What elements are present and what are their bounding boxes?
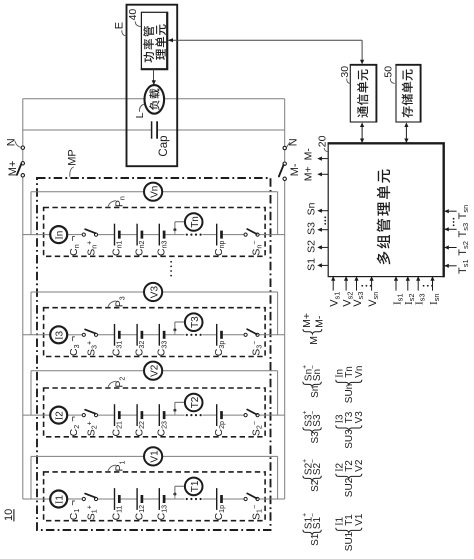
svg-text:M+: M+ — [7, 161, 19, 177]
battery cell Cn1 — [114, 224, 116, 246]
arrow M- control output — [322, 158, 329, 160]
svg-text:30: 30 — [339, 66, 351, 78]
svg-text:S1: S1 — [310, 533, 321, 546]
switch S2+ contacts and blade — [82, 414, 85, 417]
switch Sn- contacts and blade — [244, 233, 247, 236]
svg-text:I1: I1 — [55, 495, 66, 504]
switch M+ contacts — [21, 162, 24, 165]
battery cell C32 — [136, 324, 138, 346]
battery cell C21 — [114, 404, 116, 426]
svg-text:V2: V2 — [354, 459, 365, 472]
ellipsis dots in pack Pn — [186, 234, 188, 236]
arrow S3 control output — [322, 229, 329, 231]
svg-text:T1: T1 — [344, 514, 355, 526]
battery cell C12 — [136, 488, 138, 510]
svg-text:S2: S2 — [310, 479, 321, 492]
storage unit box 50 (cun chu dan yuan) — [396, 65, 421, 122]
current sensor I1 circle — [50, 491, 67, 508]
double arrow box30 to box20 — [361, 126, 363, 140]
svg-text:T3: T3 — [344, 411, 355, 423]
svg-text:I2: I2 — [55, 411, 66, 420]
svg-text:V3: V3 — [149, 286, 160, 299]
voltage sensor V2 circle — [144, 362, 162, 380]
battery cell C2p — [216, 404, 218, 426]
current sensor In circle — [50, 226, 67, 243]
switch M+ blade — [17, 164, 21, 175]
dots between Ts3 and Tsn — [453, 218, 455, 220]
wire pack P3 main string — [23, 334, 50, 336]
svg-text:S3: S3 — [310, 431, 321, 444]
svg-text:SU3: SU3 — [344, 429, 355, 449]
voltage sensor V1 circle — [144, 447, 162, 465]
voltage sense line V2 — [31, 370, 144, 372]
svg-text:In: In — [55, 231, 66, 240]
svg-text:S1: S1 — [306, 258, 318, 271]
voltage sensor Vn circle — [144, 183, 162, 201]
svg-text:Vn: Vn — [149, 186, 160, 198]
voltage inputs Vs1 Vs2 Vs3 Vsn — [332, 277, 334, 291]
svg-text:Tn: Tn — [190, 216, 201, 228]
svg-text:SUn: SUn — [344, 384, 355, 403]
svg-text:V1: V1 — [354, 513, 365, 526]
svg-text:M+: M+ — [303, 166, 315, 181]
svg-text:S2: S2 — [306, 240, 318, 253]
dots between Vs3 and Vsn — [361, 285, 363, 287]
temperature sensor T3 circle and tap — [173, 328, 176, 331]
dots between Is3 and Isn — [423, 285, 425, 287]
svg-text:Sn: Sn — [306, 202, 318, 215]
switch S1+ contacts and blade — [82, 497, 85, 500]
arrow S1 control output — [322, 264, 329, 266]
arrow S2 control output — [322, 246, 329, 248]
svg-text:M-: M- — [289, 163, 301, 176]
right bus vertical (M- bus) — [284, 99, 286, 147]
svg-text:M-: M- — [314, 315, 326, 328]
battery pack P1 dashed box — [44, 472, 266, 521]
temperature sensor T1 circle and tap — [173, 493, 176, 496]
wire M- rail from left bus to right bus (lower rail) — [23, 129, 151, 131]
battery cell Cn3 — [158, 224, 160, 246]
node N (left) — [21, 146, 24, 149]
svg-text:T2: T2 — [190, 396, 201, 408]
battery pack P2 dashed box — [44, 388, 266, 437]
svg-text:Cap: Cap — [158, 135, 170, 156]
node N (right) — [283, 146, 286, 149]
battery cell C1p — [216, 488, 218, 510]
voltage sense line V3 — [31, 291, 144, 293]
left bus vertical (M+ bus) — [22, 99, 24, 146]
svg-text:M+: M+ — [301, 313, 313, 328]
svg-text:M: M — [308, 336, 320, 345]
svg-text:V2: V2 — [149, 364, 160, 377]
battery cell C33 — [158, 324, 160, 346]
dots between S3 and Sn — [324, 216, 326, 218]
battery cell C23 — [158, 404, 160, 426]
vertical ellipsis between packs — [170, 261, 172, 263]
power management unit box 40 (gong lv guan li dan yuan) — [141, 12, 167, 69]
battery pack Pn dashed box — [44, 208, 266, 257]
load L ellipse (fu zai) — [145, 85, 165, 114]
svg-text:40: 40 — [127, 9, 139, 21]
svg-text:MP: MP — [66, 149, 78, 166]
arrow from box 40 down to load — [153, 69, 155, 80]
switch S1- contacts and blade — [244, 497, 247, 500]
svg-text:V1: V1 — [149, 450, 160, 463]
svg-text:Vn: Vn — [354, 366, 365, 378]
svg-text:L: L — [134, 112, 146, 118]
svg-text:T3: T3 — [190, 316, 201, 328]
svg-text:E: E — [114, 22, 126, 29]
capacitor Cap plates on lower rail — [151, 121, 153, 138]
battery cell C31 — [114, 324, 116, 346]
current sensor I3 circle — [50, 326, 67, 343]
svg-text:M-: M- — [303, 148, 315, 161]
ellipsis dots in pack P1 — [186, 498, 188, 500]
switch M- blade — [279, 165, 284, 177]
voltage sense line Vn — [31, 191, 144, 193]
battery cell C13 — [158, 488, 160, 510]
temperature inputs Ts1 Ts2 Ts3 Tsn — [444, 265, 457, 267]
wire pack Pn main string — [23, 234, 50, 236]
svg-text:T2: T2 — [344, 460, 355, 472]
external device box E — [127, 5, 178, 167]
switch S3- contacts and blade — [244, 333, 247, 336]
arrow Sn control output — [322, 210, 329, 212]
battery pack P3 dashed box — [44, 308, 266, 357]
svg-text:50: 50 — [383, 66, 395, 78]
battery module dash-dot box MP — [37, 178, 271, 530]
temperature sensor T2 circle and tap — [173, 409, 176, 412]
svg-text:Sn: Sn — [310, 386, 321, 398]
double arrow box50 to box20 — [405, 126, 407, 140]
communication unit box 30 (tong xin dan yuan) — [350, 65, 376, 122]
ellipsis dots in pack P3 — [186, 334, 188, 336]
switch Sn+ contacts and blade — [82, 233, 85, 236]
switch S3+ contacts and blade — [82, 333, 85, 336]
current inputs Is1 Is2 Is3 Isn — [395, 277, 397, 291]
temperature sensor Tn circle and tap — [173, 228, 176, 231]
battery cell Cnp — [216, 224, 218, 246]
wire pack P1 main string — [23, 498, 50, 500]
voltage sense line V1 — [31, 455, 144, 457]
svg-text:S3: S3 — [306, 222, 318, 235]
switch M- contacts — [283, 162, 286, 165]
wire M+ rail from left bus to right bus (top rail) — [23, 98, 285, 100]
svg-text:SU1: SU1 — [344, 531, 355, 551]
multi-pack management unit box 20 (duo zu guan li dan yuan) — [328, 143, 444, 276]
wire pack P2 main string — [23, 414, 50, 416]
svg-text:I3: I3 — [55, 330, 66, 339]
svg-text:T1: T1 — [190, 480, 201, 492]
svg-text:10: 10 — [3, 509, 15, 521]
ellipsis dots in pack P2 — [186, 414, 188, 416]
arrow M+ control output — [322, 173, 329, 175]
svg-text:N: N — [287, 138, 299, 146]
battery cell Cn2 — [136, 224, 138, 246]
battery cell C11 — [114, 488, 116, 510]
battery cell C3p — [216, 324, 218, 346]
wire from power unit 40 to communication unit 30 — [168, 39, 362, 41]
voltage sensor V3 circle — [144, 283, 162, 301]
svg-text:V3: V3 — [354, 411, 365, 424]
current sensor I2 circle — [50, 407, 67, 424]
svg-text:SU2: SU2 — [344, 477, 355, 497]
battery cell C22 — [136, 404, 138, 426]
svg-text:Tn: Tn — [344, 366, 355, 378]
switch S2- contacts and blade — [244, 414, 247, 417]
svg-text:20: 20 — [316, 135, 328, 147]
